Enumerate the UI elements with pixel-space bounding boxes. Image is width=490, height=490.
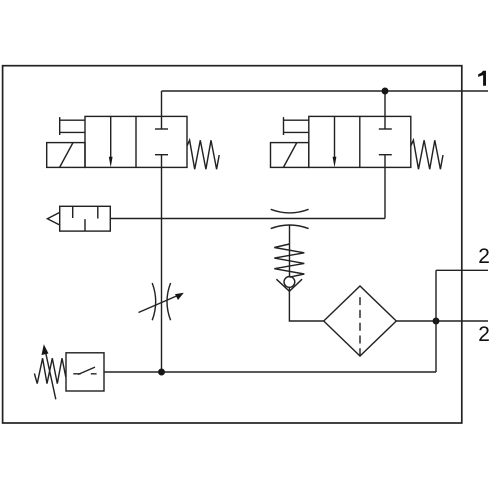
wire silencer to valve2 xyxy=(110,218,385,220)
label 2 lower xyxy=(479,326,489,341)
node junction port1/valve2 xyxy=(382,88,389,95)
wire bottom xyxy=(104,371,436,373)
label 1 xyxy=(478,71,486,86)
check valve seat xyxy=(276,279,302,291)
pressure switch S1 xyxy=(34,344,104,399)
valve V1 blocked port top xyxy=(155,128,168,130)
wire valve1 bottom stub long xyxy=(161,155,163,372)
valve V1 return spring xyxy=(187,140,219,169)
valve V2 body xyxy=(309,116,411,167)
silencer body xyxy=(60,206,111,231)
valve V1 blocked port bottom xyxy=(155,154,168,156)
silencer U3 xyxy=(47,206,110,231)
pressure switch blade xyxy=(78,367,95,374)
wire port2 riser xyxy=(435,270,437,372)
silencer baffles xyxy=(73,206,98,231)
node junction port2 xyxy=(433,318,440,325)
node junction valve1/bottom xyxy=(158,369,165,376)
label 2 upper xyxy=(479,248,489,263)
valve V2 return spring xyxy=(411,140,443,169)
check valve ball xyxy=(284,277,295,288)
valve V2 solenoid xyxy=(271,143,309,168)
filter F1 xyxy=(324,286,397,356)
wire check valve to filter xyxy=(289,287,323,321)
enclosure border xyxy=(3,66,462,423)
silencer exhaust triangle xyxy=(47,212,59,225)
valve V2 xyxy=(271,116,444,169)
wire port 1 horizontal xyxy=(162,90,489,92)
pressure switch contacts xyxy=(73,373,96,375)
wire filter output xyxy=(396,320,488,322)
valve V1 solenoid xyxy=(47,143,85,168)
wire valve2 bottom stub xyxy=(384,155,386,219)
pressure switch adjust arrow xyxy=(45,351,56,400)
valve V1 manual override xyxy=(60,117,85,135)
valve V2 blocked port bottom xyxy=(379,154,392,156)
wire port 2 upper xyxy=(436,269,488,271)
throttle RZ1 xyxy=(152,283,156,320)
valve V2 blocked port top xyxy=(379,128,392,130)
valve V1 xyxy=(47,116,220,169)
check valve spring xyxy=(274,244,304,277)
throttle arrow xyxy=(139,295,181,313)
valve V2 manual override xyxy=(284,117,309,135)
pressure switch spring xyxy=(34,358,65,383)
wire valve2 top stub xyxy=(384,91,386,129)
valve V1 body xyxy=(85,116,187,167)
wire nozzle stem xyxy=(289,225,291,277)
nozzle arcs xyxy=(271,209,309,213)
valve V2 flow arrow xyxy=(334,116,336,158)
pressure switch body xyxy=(66,353,104,391)
wire valve1 top stub xyxy=(161,91,163,129)
valve V1 flow arrow xyxy=(110,116,112,158)
